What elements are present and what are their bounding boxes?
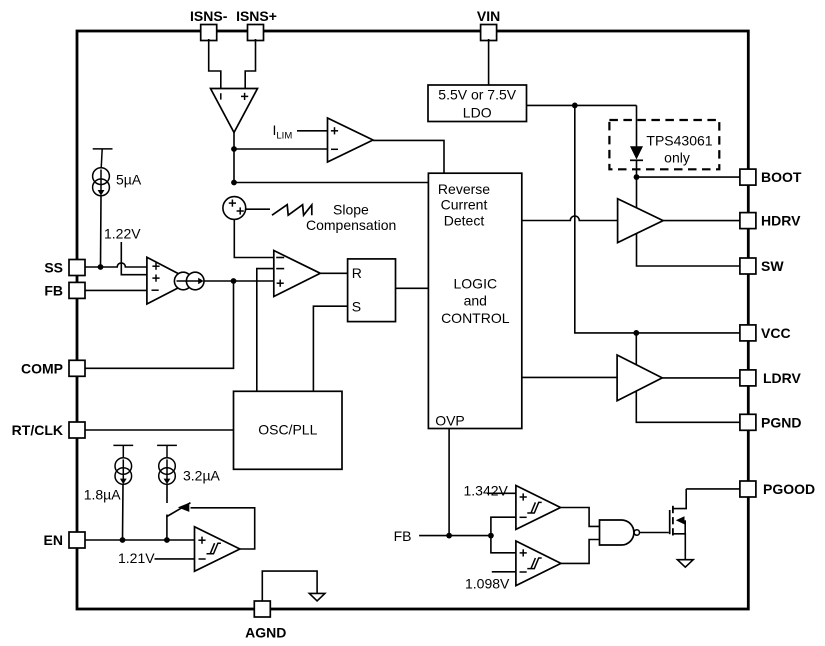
wire ILIM label to comparator — [297, 130, 328, 132]
pin RT/CLK — [12, 422, 85, 438]
svg-text:SS: SS — [44, 260, 63, 276]
pin SW — [740, 258, 784, 274]
ground under MOSFET — [677, 560, 693, 568]
wire summing junction to PWM comparator — [234, 219, 273, 257]
diode (TPS43061 only) — [630, 146, 643, 160]
wire PGND return from driver — [636, 392, 740, 423]
LDO box — [428, 85, 527, 122]
wire 1.22V reference to error amp — [121, 242, 147, 275]
wire to BOOT pin — [637, 176, 741, 178]
node reverse current sense — [231, 180, 237, 186]
svg-text:TPS43061: TPS43061 — [646, 132, 712, 148]
svg-text:R: R — [352, 265, 362, 281]
wire FB to comparators — [419, 535, 491, 537]
wire FB branch to comparator inputs — [491, 517, 516, 553]
wire VCC rail down and to VCC pin — [575, 105, 740, 333]
svg-text:5.5V or 7.5V: 5.5V or 7.5V — [438, 87, 516, 103]
pin EN — [44, 532, 85, 548]
svg-text:PGOOD: PGOOD — [763, 481, 815, 497]
wire FB to error amp — [85, 289, 147, 291]
wire OVP from logic down to FB node — [448, 429, 450, 536]
LOGIC and CONTROL box — [428, 173, 521, 428]
pin BOOT — [740, 169, 802, 185]
svg-text:and: and — [464, 293, 487, 309]
svg-text:PGND: PGND — [761, 414, 801, 430]
svg-text:Compensation: Compensation — [306, 217, 396, 233]
node SS junction — [98, 264, 104, 270]
pin COMP — [21, 360, 85, 376]
wire 1.098V to UVP comparator — [492, 571, 516, 573]
svg-text:AGND: AGND — [245, 625, 286, 641]
svg-text:VIN: VIN — [477, 8, 500, 24]
svg-text:S: S — [352, 299, 361, 315]
pin ISNS+ — [236, 8, 277, 41]
current source 1.8uA — [113, 445, 133, 484]
OSC/PLL box — [234, 391, 343, 469]
svg-text:3.2µA: 3.2µA — [183, 468, 221, 484]
node LDRV driver supply branch — [633, 330, 639, 336]
RS latch — [348, 259, 396, 322]
svg-text:VCC: VCC — [761, 325, 791, 341]
wire LDRV driver output — [662, 377, 740, 379]
node FB comparator branch — [488, 533, 494, 539]
svg-text:LDRV: LDRV — [763, 370, 802, 386]
error amplifier — [147, 257, 192, 304]
wire to ILIM comparator inverting input — [234, 148, 328, 150]
wire COMP pin up to node — [85, 281, 234, 368]
svg-text:FB: FB — [394, 528, 412, 544]
node VCC branch — [572, 103, 578, 109]
wire switch to EN node — [166, 515, 168, 541]
slope compensation sawtooth — [272, 205, 312, 216]
wire ISNS+ to sense amp — [245, 39, 255, 89]
wire NAND output to MOSFET gate — [640, 532, 669, 534]
enable hysteresis switch blade — [167, 503, 191, 517]
node BOOT — [634, 174, 640, 180]
wire ILIM comparator output to logic box — [373, 140, 444, 173]
wire logic to LDRV driver — [522, 376, 617, 378]
svg-text:RT/CLK: RT/CLK — [12, 422, 63, 438]
ground symbol AGND — [309, 593, 325, 601]
pin PGND — [740, 414, 802, 430]
wire SW return from driver — [637, 234, 741, 266]
svg-text:5µA: 5µA — [116, 172, 142, 188]
wire PWM comparator to R input — [320, 272, 347, 274]
wire RT/CLK to OSC/PLL — [85, 429, 234, 431]
wire latch output to logic — [396, 287, 429, 289]
pin LDRV — [740, 370, 802, 386]
svg-text:1.342V: 1.342V — [464, 483, 509, 499]
pin HDRV — [740, 213, 801, 229]
wire LDO output rail — [527, 104, 637, 106]
comparator OVP 1.342V — [516, 486, 561, 530]
pin SS — [44, 260, 85, 276]
wire logic to HDRV driver with hop — [522, 216, 618, 221]
HDRV gate driver — [618, 199, 664, 243]
svg-text:Slope: Slope — [333, 202, 369, 218]
LDRV gate driver — [617, 355, 662, 401]
wire oscillator to S input — [313, 306, 347, 391]
pin ISNS- — [190, 8, 228, 41]
wire oscillator ramp to PWM comparator — [257, 269, 274, 392]
pin VCC — [740, 325, 791, 341]
wire EN comparator feedback to switch — [191, 508, 255, 549]
comparator ILIM current limit — [328, 118, 374, 162]
pin FB — [44, 282, 85, 298]
svg-text:Reverse: Reverse — [438, 181, 490, 197]
MOSFET PGOOD pull-down — [670, 489, 687, 560]
comparator UVP 1.098V — [516, 541, 561, 586]
svg-text:ISNS-: ISNS- — [190, 8, 228, 24]
svg-text:OSC/PLL: OSC/PLL — [258, 422, 317, 438]
svg-text:1.098V: 1.098V — [465, 576, 510, 592]
svg-text:1.22V: 1.22V — [104, 226, 141, 242]
wire MOSFET drain to PGOOD pin — [686, 488, 740, 490]
wire OVP comparator to NAND — [561, 508, 600, 527]
wire UVP comparator to NAND — [561, 540, 600, 564]
svg-text:FB: FB — [44, 282, 63, 298]
NAND gate — [600, 520, 640, 545]
svg-text:OVP: OVP — [435, 412, 465, 428]
wire VIN to LDO — [488, 39, 490, 85]
pin AGND — [245, 601, 286, 641]
node EN 3.2uA junction — [164, 537, 170, 543]
wire AGND to ground symbol — [262, 571, 317, 601]
wire error amp output to PWM comparator — [204, 280, 274, 282]
svg-text:SW: SW — [761, 258, 784, 274]
wire summing junction to sawtooth — [246, 208, 270, 210]
wire HDRV driver output — [663, 220, 740, 222]
wire ISNS- to sense amp — [209, 39, 221, 89]
svg-text:BOOT: BOOT — [761, 169, 802, 185]
wire into diode — [636, 105, 638, 146]
summing junction — [223, 197, 246, 220]
svg-text:Current: Current — [441, 197, 488, 213]
node COMP junction — [231, 278, 237, 284]
pin VIN — [477, 8, 500, 41]
svg-text:LDO: LDO — [463, 105, 492, 121]
TPS43061 only dashed box — [609, 120, 719, 169]
error amp output current source symbol — [174, 272, 204, 290]
wire 1.342V to OVP comparator — [487, 492, 516, 494]
current source 5uA — [93, 149, 113, 196]
svg-text:EN: EN — [44, 532, 63, 548]
wire LDRV driver supply — [635, 333, 637, 365]
wire 3.2uA to switch — [166, 484, 168, 503]
node OVP FB junction — [446, 533, 452, 539]
svg-text:1.8µA: 1.8µA — [84, 487, 122, 503]
PWM comparator — [274, 251, 321, 297]
wire EN pin to comparator — [85, 539, 195, 541]
wire 5uA source to SS node — [100, 196, 103, 267]
svg-text:LOGIC: LOGIC — [454, 275, 498, 291]
svg-text:Detect: Detect — [444, 212, 485, 228]
svg-text:CONTROL: CONTROL — [441, 310, 510, 326]
current source 3.2uA — [157, 445, 177, 484]
current sense amplifier — [211, 89, 258, 133]
svg-text:ISNS+: ISNS+ — [236, 8, 277, 24]
wire diode to BOOT node — [636, 160, 638, 208]
svg-text:only: only — [664, 150, 690, 166]
svg-text:COMP: COMP — [21, 360, 63, 376]
node EN 1.8uA junction — [120, 537, 126, 543]
pin PGOOD — [740, 481, 815, 497]
wire 1.8uA to EN node — [122, 484, 125, 540]
wire to reverse current detect — [234, 182, 428, 184]
wire SS to error amp with hop — [85, 263, 147, 267]
wire sense amp output down — [233, 133, 235, 183]
arrowhead on switch control — [178, 503, 190, 512]
svg-text:HDRV: HDRV — [761, 213, 801, 229]
svg-text:1.21V: 1.21V — [118, 550, 155, 566]
comparator EN — [195, 527, 240, 572]
wire 1.21V reference to EN comparator — [155, 558, 195, 560]
node sense output / ILIM junction — [231, 146, 237, 152]
